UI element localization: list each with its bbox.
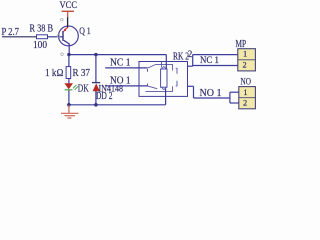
svg-text:1: 1	[243, 88, 247, 97]
wire node to DD2 cathode	[95, 55, 97, 83]
resistor R38B	[37, 35, 48, 39]
wire riser to MP	[192, 55, 194, 67]
svg-text:2: 2	[243, 60, 247, 69]
svg-text:NO 1: NO 1	[110, 75, 131, 86]
svg-text:NO 1: NO 1	[200, 88, 222, 99]
svg-text:Q 1: Q 1	[79, 26, 91, 37]
wire NO riser	[229, 92, 231, 103]
wire to NO pin 1	[230, 91, 239, 93]
svg-text:RK 2: RK 2	[173, 52, 189, 63]
wire to NO pin 2	[230, 102, 239, 104]
resistor R37	[66, 67, 71, 79]
wire DD2 anode to ground rail	[95, 91, 97, 105]
LED DK	[64, 83, 78, 90]
wire NO1 to relay pin 4	[105, 85, 147, 87]
wire ground rail	[69, 104, 166, 106]
wire LED to ground rail	[68, 90, 70, 105]
wire dropper to NO	[193, 86, 195, 98]
wire to MP pin 2	[193, 65, 238, 67]
wire R38B to Q1 base	[48, 36, 63, 38]
wire to NO connector	[194, 97, 230, 99]
power VCC	[60, 0, 78, 18]
wire NC1 to relay pin 1	[105, 67, 147, 69]
svg-text:VCC: VCC	[60, 0, 78, 11]
connector NO	[239, 87, 256, 109]
wire collector node to relay coil	[69, 54, 166, 56]
ground	[61, 105, 79, 118]
svg-text:NO: NO	[241, 76, 252, 86]
junction LED-ground	[67, 103, 71, 107]
junction collector node	[67, 53, 70, 56]
svg-text:2: 2	[188, 49, 193, 59]
wire to MP pin 1	[193, 54, 238, 56]
wire relay bottom pin stub	[188, 85, 194, 87]
junction diode tap	[94, 53, 97, 56]
svg-text:2: 2	[243, 99, 247, 108]
junction diode-ground	[94, 103, 98, 107]
svg-text:1: 1	[243, 50, 247, 59]
diode DD2	[92, 83, 100, 92]
wire P2.7 to R38B	[2, 36, 37, 38]
connector MP	[238, 49, 256, 71]
svg-text:DD 2: DD 2	[96, 91, 113, 102]
svg-text:R 38 B: R 38 B	[30, 24, 54, 35]
svg-text:MP: MP	[236, 39, 247, 50]
wire R37 to LED	[68, 79, 70, 84]
transistor Q1 (PNP)	[57, 17, 78, 55]
svg-text:100: 100	[33, 40, 47, 51]
wire relay pin 2 stub	[188, 65, 193, 67]
relay RK2	[139, 55, 188, 105]
svg-text:NC 1: NC 1	[200, 55, 219, 65]
svg-text:1 kΩ: 1 kΩ	[45, 68, 64, 79]
wire node to R37	[68, 55, 70, 67]
svg-text:NC 1: NC 1	[110, 57, 131, 68]
svg-text:DK: DK	[78, 84, 89, 95]
svg-text:R 37: R 37	[73, 68, 91, 79]
